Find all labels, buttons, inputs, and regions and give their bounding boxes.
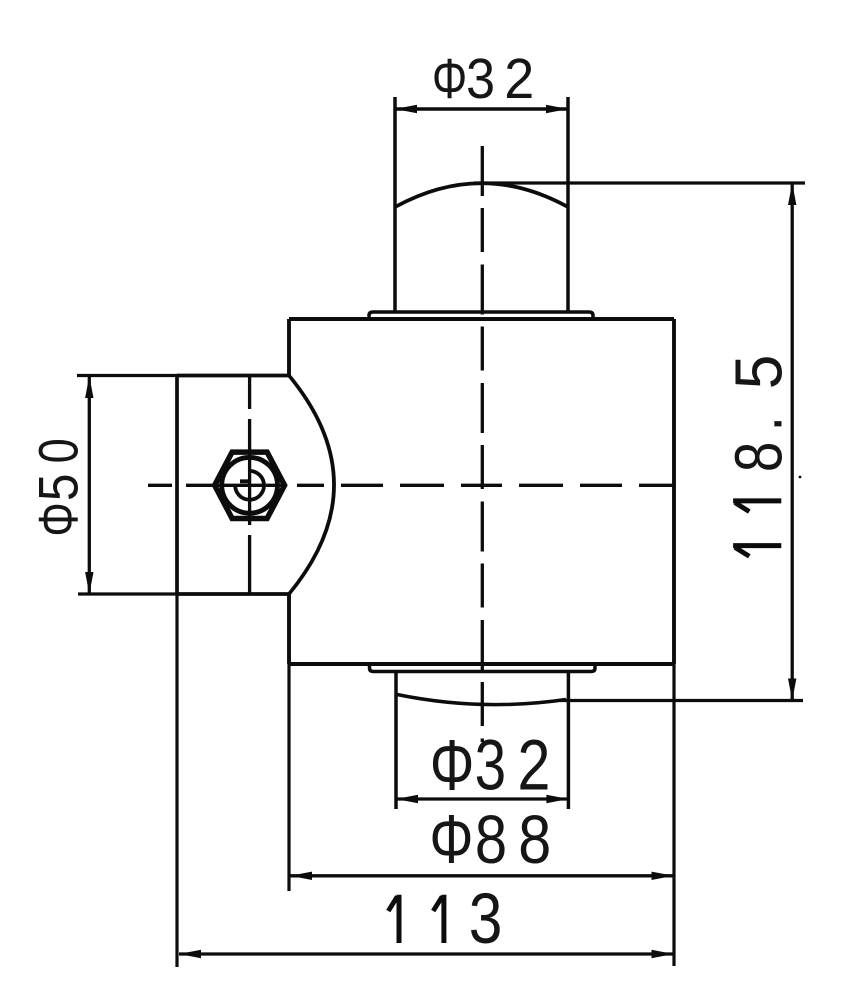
dimension line Φ88 [290, 874, 674, 877]
dimension line 113 [179, 952, 674, 955]
arrowhead left (bottom Φ32) [396, 795, 418, 803]
arrowhead right (top Φ32) [546, 105, 568, 113]
extension line right (body edge extended for Φ88/113) [672, 664, 675, 966]
extension line (boss top extended for Φ50) [77, 374, 177, 377]
svg-text:2: 2 [517, 724, 550, 805]
extension line (bottom dome, for 118.5) [560, 699, 803, 702]
dimension text Φ32 (top) [432, 47, 534, 111]
arrowhead right (113) [652, 950, 674, 958]
svg-text:Φ: Φ [429, 803, 473, 879]
dimension text Φ88 [429, 801, 551, 878]
dimension line Φ32 (top) [395, 107, 568, 111]
main body left edge lower segment [287, 594, 291, 664]
extension line (boss bottom extended for Φ50) [78, 592, 177, 595]
arrowhead left (Φ88) [290, 872, 312, 880]
svg-text:5: 5 [721, 355, 796, 390]
top cylinder right side / extension line [566, 97, 570, 312]
dimension text 113 [388, 879, 502, 959]
boss top edge [177, 374, 289, 378]
thread arc tail tick [240, 479, 251, 483]
svg-text:Φ: Φ [430, 725, 475, 805]
arrowhead down (118.5) [788, 679, 796, 701]
arrowhead left (top Φ32) [395, 105, 417, 113]
arrowhead right (Φ88) [652, 872, 674, 880]
dimension text 118.5 (rotated) [721, 355, 796, 557]
bolt vertical centerline [248, 376, 251, 594]
main body right edge [672, 319, 676, 664]
arrowhead up (Φ50) [85, 376, 93, 398]
main body left edge upper segment [287, 319, 291, 376]
boss bulge arc [289, 376, 334, 595]
svg-text:8: 8 [475, 803, 507, 878]
dimension line Φ32 (bottom) [396, 797, 568, 800]
bottom cylinder left side / extension line [394, 672, 398, 810]
stray dot [799, 476, 802, 479]
bolt outer circle [222, 457, 278, 513]
top cylinder left side / extension line [393, 97, 397, 312]
top dome arc [396, 183, 567, 206]
svg-text:3: 3 [466, 47, 495, 110]
svg-text:8: 8 [518, 801, 551, 878]
arrowhead right (bottom Φ32) [546, 795, 568, 803]
bottom dome arc [397, 695, 566, 705]
extension line (dome top, for 118.5) [474, 181, 805, 184]
svg-text:.: . [721, 416, 795, 431]
svg-text:8: 8 [721, 442, 795, 473]
dimension text Φ32 (bottom) [430, 724, 551, 805]
horizontal centerline [148, 484, 673, 487]
main body top edge [289, 317, 674, 321]
boss left edge [175, 376, 179, 595]
svg-text:Φ: Φ [28, 502, 89, 536]
top collar flange [369, 312, 593, 319]
vertical centerline (cylinder axis) [481, 146, 484, 742]
dimension text Φ50 (rotated) [27, 438, 90, 536]
svg-text:2: 2 [504, 47, 534, 111]
svg-text:3: 3 [469, 879, 503, 959]
dimension line Φ50 (left) [88, 376, 91, 594]
bottom collar flange [370, 664, 596, 672]
extension line (boss left edge extended for 113) [175, 594, 178, 967]
arrowhead down (Φ50) [85, 572, 93, 594]
svg-text:5: 5 [28, 473, 90, 501]
arrowhead up (118.5) [788, 183, 796, 205]
svg-text:Φ: Φ [432, 47, 467, 111]
main body bottom edge [289, 662, 674, 666]
hex nut [215, 452, 285, 518]
boss bottom edge [177, 592, 290, 596]
bottom cylinder right side / extension line [567, 672, 571, 810]
arrowhead left (113) [179, 950, 201, 958]
svg-text:3: 3 [475, 725, 507, 805]
dimension line 118.5 (right) [791, 183, 794, 701]
svg-text:0: 0 [27, 438, 89, 463]
bolt inner thread arc [235, 471, 264, 500]
extension line left (body edge extended for Φ88) [287, 664, 290, 891]
